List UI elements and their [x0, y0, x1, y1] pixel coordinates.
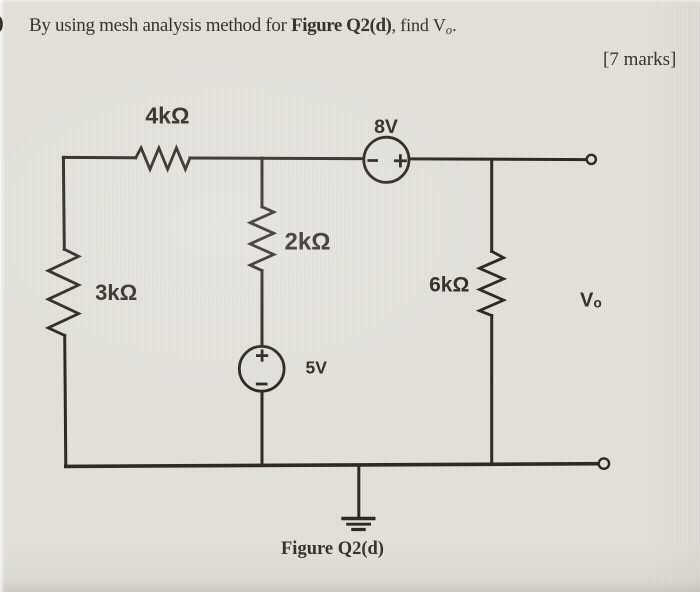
svg-text:3kΩ: 3kΩ [95, 280, 137, 305]
voltage source V2 minus sign [256, 383, 268, 386]
wire top middle to right terminal [190, 158, 587, 160]
terminal node bottom right (output -) [599, 458, 609, 468]
resistor R4 6kΩ zigzag [479, 251, 503, 315]
svg-text:4kΩ: 4kΩ [145, 103, 189, 129]
voltage source V1 8V circle [364, 137, 409, 182]
question text line [0, 12, 3, 35]
svg-text:6kΩ: 6kΩ [429, 273, 469, 296]
wire bottom horizontal [66, 464, 599, 467]
svg-text:o: o [594, 296, 602, 311]
wire middle branch upper [261, 158, 264, 207]
voltage source V1 minus sign [367, 159, 378, 162]
svg-text:2kΩ: 2kΩ [285, 228, 331, 255]
voltage source V2 plus sign [256, 350, 268, 362]
ground symbol [341, 519, 375, 530]
resistor R3 2kΩ zigzag [250, 207, 274, 271]
voltage source V1 plus sign [394, 154, 407, 167]
marks label [603, 49, 676, 71]
figure caption [281, 539, 384, 560]
wire left vertical upper [62, 157, 66, 249]
wire right branch lower [490, 316, 493, 465]
svg-text:8V: 8V [374, 116, 398, 138]
svg-text:V: V [580, 290, 594, 312]
terminal node top right (output +) [587, 155, 596, 164]
resistor R1 4kΩ zigzag [136, 148, 190, 169]
wire ground stub [357, 465, 360, 518]
wire top left horizontal [63, 156, 135, 159]
wire right branch upper [490, 160, 493, 252]
wire left vertical lower [65, 335, 66, 466]
svg-text:5V: 5V [305, 358, 327, 378]
wire middle branch lower through 5V source [261, 271, 264, 466]
resistor R2 3kΩ zigzag [48, 249, 78, 335]
voltage source V2 5V circle [239, 346, 284, 391]
